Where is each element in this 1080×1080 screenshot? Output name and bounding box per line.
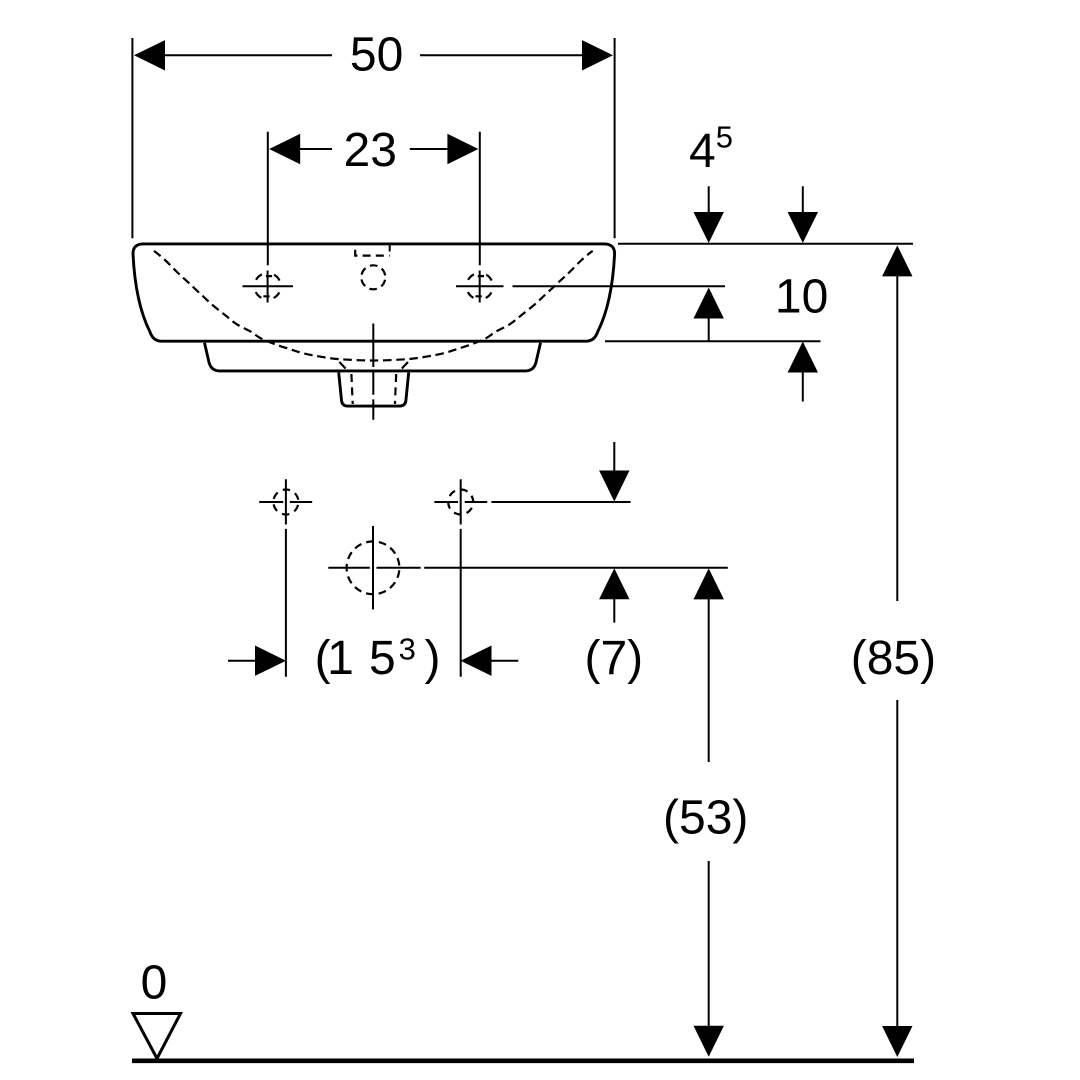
right fixation hole extension line: [460, 529, 462, 677]
svg-text:3: 3: [399, 631, 416, 666]
overflow hole (dashed circle): [361, 265, 385, 289]
washbasin semi-pedestal step outline: [205, 343, 541, 371]
dimension 85: line lower segment: [896, 700, 898, 1027]
siphon reference line: [424, 567, 728, 569]
dimension 53: down arrowhead: [694, 1026, 724, 1057]
dimension 23: left extension line: [267, 132, 269, 266]
dimension 50: left extension line: [131, 38, 133, 238]
top reference line (basin rim level): [618, 243, 913, 245]
svg-text:5: 5: [369, 632, 396, 685]
dimension 15.3: left arrow with tail: [228, 660, 258, 662]
right tap hole center ticks: [476, 276, 485, 296]
svg-text:1: 1: [327, 632, 354, 685]
basin centerline: [372, 324, 374, 420]
dimension 53: up arrowhead: [694, 568, 724, 599]
dimension 4.5: up arrowhead with tail: [694, 288, 724, 319]
svg-text:0: 0: [141, 956, 168, 1009]
hidden drain right wall (dashed): [395, 374, 396, 404]
left tap hole (dashed circle): [254, 273, 280, 299]
hidden bowl-to-drain left cone edge (dashed): [339, 362, 349, 373]
dimension 23: left arrowhead: [269, 134, 300, 164]
left tap hole center ticks: [263, 276, 272, 296]
overflow knockout dashed edge: [355, 250, 389, 256]
dimension 50: right extension line: [614, 38, 616, 238]
left tap hole crosshair: [243, 271, 294, 303]
dimension 85: up arrowhead: [882, 245, 912, 276]
floor datum triangle: [133, 1014, 181, 1059]
svg-text:(85): (85): [851, 632, 936, 685]
dimension 10: up arrowhead with tail: [788, 342, 818, 373]
svg-text:): ): [425, 632, 441, 685]
right fixation hole (dashed circle): [448, 490, 473, 515]
floor ground line: [132, 1059, 914, 1064]
dimension 50: left arrowhead: [134, 40, 165, 70]
dimension 50: right arrowhead: [582, 40, 613, 70]
dimension 53: line upper segment: [708, 597, 710, 762]
tap hole reference line: [513, 285, 726, 287]
dimension 23: right extension line: [479, 132, 481, 266]
dimension 50: line segments: [164, 54, 583, 56]
dimension 7: down arrowhead with tail: [613, 442, 615, 472]
dimension 15.3: right arrow with tail: [489, 660, 519, 662]
drain trap outline: [339, 373, 409, 407]
svg-text:(7): (7): [584, 632, 643, 685]
right tap hole crosshair: [456, 271, 504, 303]
hidden bowl-to-drain right cone edge (dashed): [398, 362, 408, 373]
svg-text:50: 50: [350, 29, 403, 82]
siphon hole (dashed circle): [347, 541, 400, 594]
overflow knockout solid tick: [389, 245, 391, 251]
dimension 4.5: down arrowhead with tail: [708, 186, 710, 214]
dimension 10: down arrowhead with tail: [802, 186, 804, 214]
svg-text:10: 10: [775, 270, 828, 323]
left fixation hole extension line: [285, 529, 287, 677]
dimension 85: line upper segment: [896, 274, 898, 601]
dimension 53: line lower segment: [708, 861, 710, 1028]
hidden drain left wall (dashed): [351, 374, 352, 404]
svg-text:23: 23: [344, 124, 397, 177]
dimension 7: up arrowhead with tail: [599, 568, 629, 599]
right tap hole (dashed circle): [467, 273, 493, 299]
dimension 23: line segments: [299, 148, 448, 150]
basin bottom reference line: [605, 340, 821, 342]
right fixation hole crosshair: [434, 479, 487, 524]
hidden inner bowl curve (dashed): [154, 251, 593, 361]
left fixation hole crosshair: [259, 479, 312, 524]
svg-text:(53): (53): [663, 791, 748, 844]
siphon crosshair: [328, 526, 420, 609]
dimension 85: down arrowhead: [882, 1026, 912, 1057]
left fixation hole (dashed circle): [273, 490, 298, 515]
fixation hole reference line: [491, 501, 630, 503]
washbasin body outline: [133, 244, 615, 341]
dimension 23: right arrowhead: [447, 134, 478, 164]
